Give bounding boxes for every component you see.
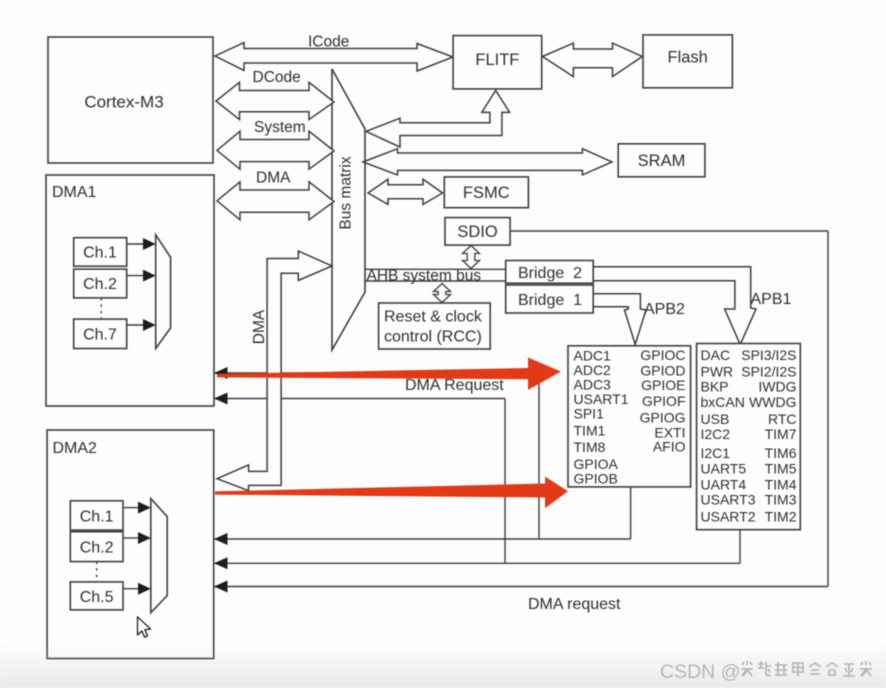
svg-text:USB: USB [701,411,730,427]
svg-text:FLITF: FLITF [475,51,519,69]
svg-text:SRAM: SRAM [638,152,686,170]
svg-text:RTC: RTC [768,411,797,427]
svg-text:GPIOG: GPIOG [640,410,686,426]
svg-text:SDIO: SDIO [457,223,498,241]
svg-text:BKP: BKP [701,379,729,395]
svg-text:PWR: PWR [701,364,734,380]
svg-text:DMA: DMA [256,170,291,187]
svg-text:DMA1: DMA1 [52,184,97,201]
svg-text:DMA request: DMA request [528,596,621,613]
svg-text:USART3: USART3 [701,492,756,508]
svg-text:UART4: UART4 [701,477,747,493]
svg-text:SPI2/I2S: SPI2/I2S [741,364,796,380]
svg-text:Ch.1: Ch.1 [83,245,117,262]
svg-text:ICode: ICode [308,34,349,51]
svg-text:DCode: DCode [253,69,301,86]
svg-text:GPIOF: GPIOF [642,393,686,409]
svg-text:USART2: USART2 [701,509,756,525]
svg-text:GPIOB: GPIOB [574,471,618,487]
svg-text:TIM1: TIM1 [574,423,606,439]
svg-text:GPIOC: GPIOC [640,347,685,363]
svg-text:Flash: Flash [668,49,708,67]
svg-text:I2C2: I2C2 [701,426,731,442]
svg-text:Ch.1: Ch.1 [80,509,114,526]
svg-text:Ch.2: Ch.2 [80,540,114,557]
svg-text:TIM8: TIM8 [574,439,606,455]
svg-text:UART5: UART5 [701,461,747,477]
svg-text:FSMC: FSMC [463,184,510,202]
svg-text:TIM5: TIM5 [765,461,797,477]
svg-text:GPIOE: GPIOE [641,377,685,393]
svg-text:Reset & clock: Reset & clock [384,309,483,326]
svg-text:SPI1: SPI1 [574,406,605,422]
svg-text:APB1: APB1 [751,291,792,308]
svg-text:AHB system bus: AHB system bus [367,268,482,285]
svg-text:TIM6: TIM6 [765,445,797,461]
svg-text:TIM4: TIM4 [765,477,797,493]
svg-text:TIM3: TIM3 [765,492,797,508]
svg-text:Bridge 2: Bridge 2 [518,265,582,282]
svg-text:bxCAN: bxCAN [701,394,745,410]
svg-text:APB2: APB2 [644,301,685,318]
svg-text:DMA2: DMA2 [53,440,98,457]
svg-text:System: System [254,119,306,136]
svg-text:WWDG: WWDG [749,394,796,410]
svg-text:TIM2: TIM2 [765,509,797,525]
svg-text:DMA: DMA [251,309,268,344]
svg-text:TIM7: TIM7 [765,426,797,442]
svg-text:Ch.7: Ch.7 [83,327,117,344]
svg-text:AFIO: AFIO [653,439,686,455]
svg-text:Bridge 1: Bridge 1 [518,292,582,309]
svg-text:Bus matrix: Bus matrix [338,156,355,229]
svg-text:CSDN @: CSDN @ [660,661,740,683]
svg-text:I2C1: I2C1 [701,445,731,461]
svg-text:control (RCC): control (RCC) [384,329,482,346]
svg-text:SPI3/I2S: SPI3/I2S [741,347,796,363]
svg-text:DAC: DAC [701,347,731,363]
svg-text:IWDG: IWDG [758,379,796,395]
svg-text:Cortex-M3: Cortex-M3 [84,93,163,112]
svg-text:Ch.2: Ch.2 [83,276,117,293]
svg-text:DMA Request: DMA Request [405,377,504,394]
svg-text:Ch.5: Ch.5 [80,589,114,606]
